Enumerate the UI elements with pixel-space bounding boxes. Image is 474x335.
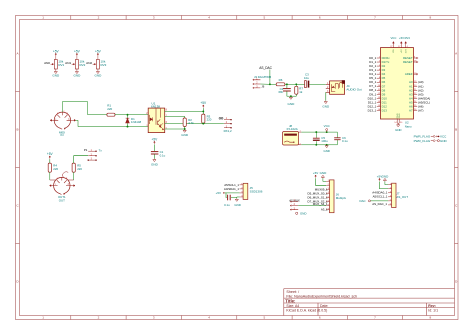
svg-text:GND: GND [52, 73, 60, 77]
svg-text:PJ-102A: PJ-102A [287, 127, 298, 131]
svg-text:VCC: VCC [324, 124, 330, 128]
svg-text:7: 7 [374, 16, 376, 20]
right pins U2 A0-A7 [414, 82, 418, 110]
svg-text:AS_DAC: AS_DAC [259, 66, 272, 70]
svg-text:RV2: RV2 [80, 63, 86, 67]
svg-text:8: 8 [429, 316, 431, 320]
pin arrow MIDI IN pin 3 [71, 119, 76, 121]
wire R1 to D1 node [115, 114, 148, 116]
wire J4 sleeve to ground [325, 92, 327, 100]
svg-text:OUT: OUT [59, 198, 65, 202]
svg-text:A3_1: A3_1 [321, 208, 328, 212]
svg-text:AREF: AREF [405, 72, 413, 76]
svg-text:+5V: +5V [401, 49, 403, 53]
wire U1 pin7 to R2 [165, 117, 185, 119]
svg-text:220: 220 [207, 118, 212, 122]
svg-text:100u: 100u [321, 139, 328, 143]
pins J4 [326, 84, 330, 92]
left pins U2 D0-D13 [377, 58, 381, 111]
svg-text:J6: J6 [261, 85, 264, 89]
svg-text:3: 3 [153, 16, 155, 20]
optocoupler internals [156, 109, 160, 125]
svg-text:R6: R6 [279, 78, 283, 82]
svg-text:AN1: AN1 [65, 61, 71, 65]
capacitor C5 100u [315, 132, 317, 138]
connector J6 multiplexer [330, 180, 335, 213]
wire node to R6 [270, 83, 276, 85]
junction GND stem [326, 144, 328, 146]
svg-text:1: 1 [42, 16, 44, 20]
svg-text:6: 6 [319, 16, 321, 20]
svg-text:AS_OUT: AS_OUT [396, 195, 408, 199]
potentiometer RV3 [96, 60, 99, 70]
svg-text:GND: GND [323, 149, 329, 153]
potentiometer RV1 [54, 60, 57, 70]
junction U1 pin5 / R2 [184, 127, 186, 130]
svg-text:VIN: VIN [393, 49, 395, 53]
svg-text:GND: GND [234, 203, 240, 207]
wire R6 to C2/R7 node [285, 83, 305, 85]
wire C3 to jack [309, 83, 326, 85]
connector J2 MIDI OUT DIN-5 [54, 177, 70, 193]
svg-text:4: 4 [208, 316, 210, 320]
title block [284, 289, 455, 316]
potentiometer RV2 [75, 60, 78, 70]
ground for RV2 [76, 70, 78, 73]
jumper JP1 RX select [224, 120, 231, 128]
svg-text:0.1u: 0.1u [224, 203, 230, 207]
wire U1 pin6 output [165, 123, 224, 125]
svg-text:2: 2 [98, 16, 100, 20]
svg-text:GND: GND [320, 171, 328, 175]
svg-text:P1: P1 [84, 148, 88, 152]
svg-text:RV1: RV1 [58, 63, 64, 67]
svg-text:Title:: Title: [285, 298, 296, 303]
svg-text:GND: GND [74, 73, 82, 77]
capacitor C1 0.1u [151, 151, 159, 153]
svg-text:GND: GND [399, 113, 401, 118]
wire R4 to DIN pin4 [49, 172, 51, 180]
junction R3 / output wire [202, 122, 204, 124]
capacitor C2 68n [286, 84, 288, 88]
svg-text:1N4148: 1N4148 [131, 120, 142, 124]
svg-text:1k: 1k [299, 90, 303, 94]
wire MIDI IN pin3 to opto [76, 120, 149, 126]
junction filter ground [290, 95, 292, 97]
ground U1 [184, 128, 186, 131]
svg-text:(A7): (A7) [418, 109, 423, 113]
wire to C4 [225, 193, 228, 198]
svg-text:SSD1306: SSD1306 [250, 190, 263, 194]
junction VCC stem [326, 131, 328, 133]
IC U2 Arduino Nano [381, 48, 414, 119]
frame row ticks left/right [16, 92, 459, 244]
svg-text:Date:: Date: [320, 304, 328, 308]
svg-text:7: 7 [374, 316, 376, 320]
wire RV3 bottom [97, 69, 99, 71]
svg-text:Rev:: Rev: [428, 304, 436, 308]
wire RV2 top [76, 56, 78, 60]
svg-text:6N138: 6N138 [151, 104, 160, 108]
svg-text:Multiplx: Multiplx [336, 196, 347, 200]
resistor R5 220 [72, 163, 75, 172]
wire J5 pin4 to ground [237, 196, 240, 198]
connector J5 OLED [243, 183, 248, 199]
svg-text:RESET: RESET [403, 60, 413, 64]
svg-text:Id: 1/1: Id: 1/1 [428, 309, 438, 313]
svg-text:6: 6 [319, 316, 321, 320]
svg-text:2: 2 [63, 111, 64, 113]
svg-text:B: B [16, 128, 18, 132]
svg-text:Nano: Nano [405, 125, 412, 129]
svg-text:220: 220 [53, 167, 58, 171]
svg-text:VCC: VCC [390, 36, 396, 40]
wire jumper JP4 to J6 pin7 [298, 205, 326, 207]
svg-text:DAC: DAC [359, 199, 365, 203]
svg-text:1: 1 [42, 316, 44, 320]
svg-text:+5V: +5V [74, 49, 81, 53]
svg-text:GND: GND [440, 139, 448, 143]
no-connect flags right pins [416, 57, 418, 59]
svg-text:RX1,2: RX1,2 [224, 129, 232, 133]
svg-text:GND: GND [382, 174, 390, 178]
connector J4 audio jack [330, 81, 345, 94]
ground J5 [236, 197, 238, 200]
resistor R7 1k [295, 84, 297, 86]
svg-text:GND: GND [288, 102, 296, 106]
no-connect circle JP4 pin3 [296, 212, 298, 214]
capacitor C4 0.1u [227, 195, 229, 201]
junction node D1 bottom [127, 126, 129, 128]
svg-text:AN0: AN0 [44, 61, 50, 65]
svg-text:D13: D13 [382, 109, 388, 113]
svg-text:GND: GND [300, 211, 306, 215]
svg-text:+5V: +5V [152, 137, 159, 141]
svg-text:PWR_FLAG: PWR_FLAG [414, 139, 431, 143]
wire U1 pin8 to +5V [165, 110, 204, 112]
bottom pins U2 GND [397, 119, 399, 124]
svg-text:GND: GND [151, 163, 159, 167]
svg-text:2: 2 [98, 316, 100, 320]
svg-text:GND: GND [181, 133, 189, 137]
wire RV1 bottom [55, 69, 57, 71]
junction C5 top [315, 131, 317, 133]
resistor R3 220 [202, 114, 205, 123]
svg-text:A7: A7 [409, 109, 413, 113]
svg-text:1: 1 [55, 184, 56, 186]
resistor R6 1k [276, 83, 285, 86]
wire GND rail bottom [301, 140, 337, 145]
ground for RV3 [97, 70, 99, 73]
svg-text:220: 220 [77, 167, 82, 171]
junction node D1 top [127, 114, 129, 116]
frame column ticks top/bottom [71, 16, 403, 320]
svg-text:IN: IN [61, 133, 64, 137]
arc at MIDI OUT pin2 [62, 172, 68, 177]
wire R5 to DIN pin5 [73, 172, 75, 180]
svg-text:File: NanoAudioExperimentShiel: File: NanoAudioExperimentShield.kicad_sc… [286, 294, 357, 298]
wire JP3 to node [260, 83, 270, 85]
wire C4 to ground [231, 197, 237, 199]
svg-text:4.7k: 4.7k [188, 121, 194, 125]
right pins U2 RESET/AREF [414, 58, 418, 74]
svg-text:D13_1: D13_1 [368, 108, 377, 112]
svg-text:220: 220 [107, 107, 112, 111]
ground for RV1 [55, 70, 57, 73]
svg-text:Tx: Tx [99, 149, 103, 153]
junction AS_DAC [269, 83, 271, 85]
svg-text:AUDIO Out: AUDIO Out [346, 88, 361, 92]
ground filter [290, 95, 292, 98]
pins J8 [299, 132, 302, 145]
svg-text:+5V: +5V [95, 49, 102, 53]
svg-text:5: 5 [264, 16, 266, 20]
wire VIN rail top [301, 132, 337, 137]
svg-text:0.1u: 0.1u [160, 153, 166, 157]
svg-text:MUX_S4_1: MUX_S4_1 [313, 202, 328, 206]
svg-text:GND: GND [95, 73, 103, 77]
connector J1 MIDI IN DIN-5 [54, 112, 70, 128]
ground C1 [153, 158, 155, 161]
svg-text:0.1u: 0.1u [342, 139, 348, 143]
svg-text:+5V: +5V [200, 101, 207, 105]
diode D1 1N4148 [127, 115, 129, 118]
resistor R1 220 [107, 113, 115, 116]
svg-text:AN2: AN2 [86, 61, 92, 65]
resistor R4 220 [48, 163, 51, 172]
svg-text:GND: GND [395, 128, 401, 132]
wire R5 to TX jumper [74, 156, 88, 163]
svg-text:+5V: +5V [53, 49, 60, 53]
svg-text:AS_DAC_1: AS_DAC_1 [372, 202, 387, 206]
svg-text:Size: A4: Size: A4 [286, 304, 299, 308]
svg-text:4: 4 [208, 16, 210, 20]
wire filter ground node [287, 95, 296, 97]
wire MIDI IN pin2 to R1 [62, 102, 107, 115]
wire RV2 bottom [76, 69, 78, 71]
junction C5 bottom [315, 144, 317, 146]
svg-text:B: B [455, 128, 457, 132]
wire C1 to ground [153, 154, 155, 158]
junction R7 [295, 83, 297, 85]
net label D0 [219, 117, 221, 119]
svg-text:3: 3 [153, 316, 155, 320]
no-connect arrows MIDI OUT [50, 185, 54, 187]
svg-text:8: 8 [429, 16, 431, 20]
ground J4 [325, 100, 327, 103]
wire AS_DAC to node [269, 70, 271, 85]
junction +5V / pin8 [202, 110, 204, 112]
no-connect arrow MIDI IN pin 1 [50, 119, 54, 121]
svg-text:2: 2 [63, 177, 64, 179]
connector J7 AS out [392, 183, 396, 207]
svg-text:1: 1 [55, 119, 56, 121]
svg-text:10u: 10u [304, 76, 309, 80]
svg-text:A4/SDA1_1: A4/SDA1_1 [224, 187, 239, 191]
wire U1 pin5 to ground [165, 128, 185, 130]
svg-text:RV3: RV3 [101, 63, 107, 67]
wire +5V to J5 pin3 [225, 192, 240, 194]
svg-text:KiCad E.D.A. kicad (6.0.5): KiCad E.D.A. kicad (6.0.5) [286, 309, 327, 313]
wire AS_DAC to J7 pin5 [370, 200, 388, 202]
svg-text:+5V/3V3: +5V/3V3 [399, 36, 410, 40]
svg-text:GND: GND [322, 105, 330, 109]
junction C2 [286, 83, 288, 85]
svg-text:68n: 68n [278, 90, 283, 94]
resistor R2 4.7k [183, 118, 186, 127]
svg-text:5: 5 [264, 316, 266, 320]
capacitor C6 0.1u [334, 137, 340, 139]
ground U2 [397, 123, 399, 126]
op-amp U1 6N138 optocoupler [148, 108, 165, 133]
ground power input [326, 144, 328, 147]
svg-text:A5/SCL1_1: A5/SCL1_1 [373, 195, 388, 199]
wire RV1 top [55, 56, 57, 60]
svg-text:+5V: +5V [47, 152, 54, 156]
svg-text:+5V: +5V [216, 191, 221, 195]
wire RV3 top [97, 56, 99, 60]
